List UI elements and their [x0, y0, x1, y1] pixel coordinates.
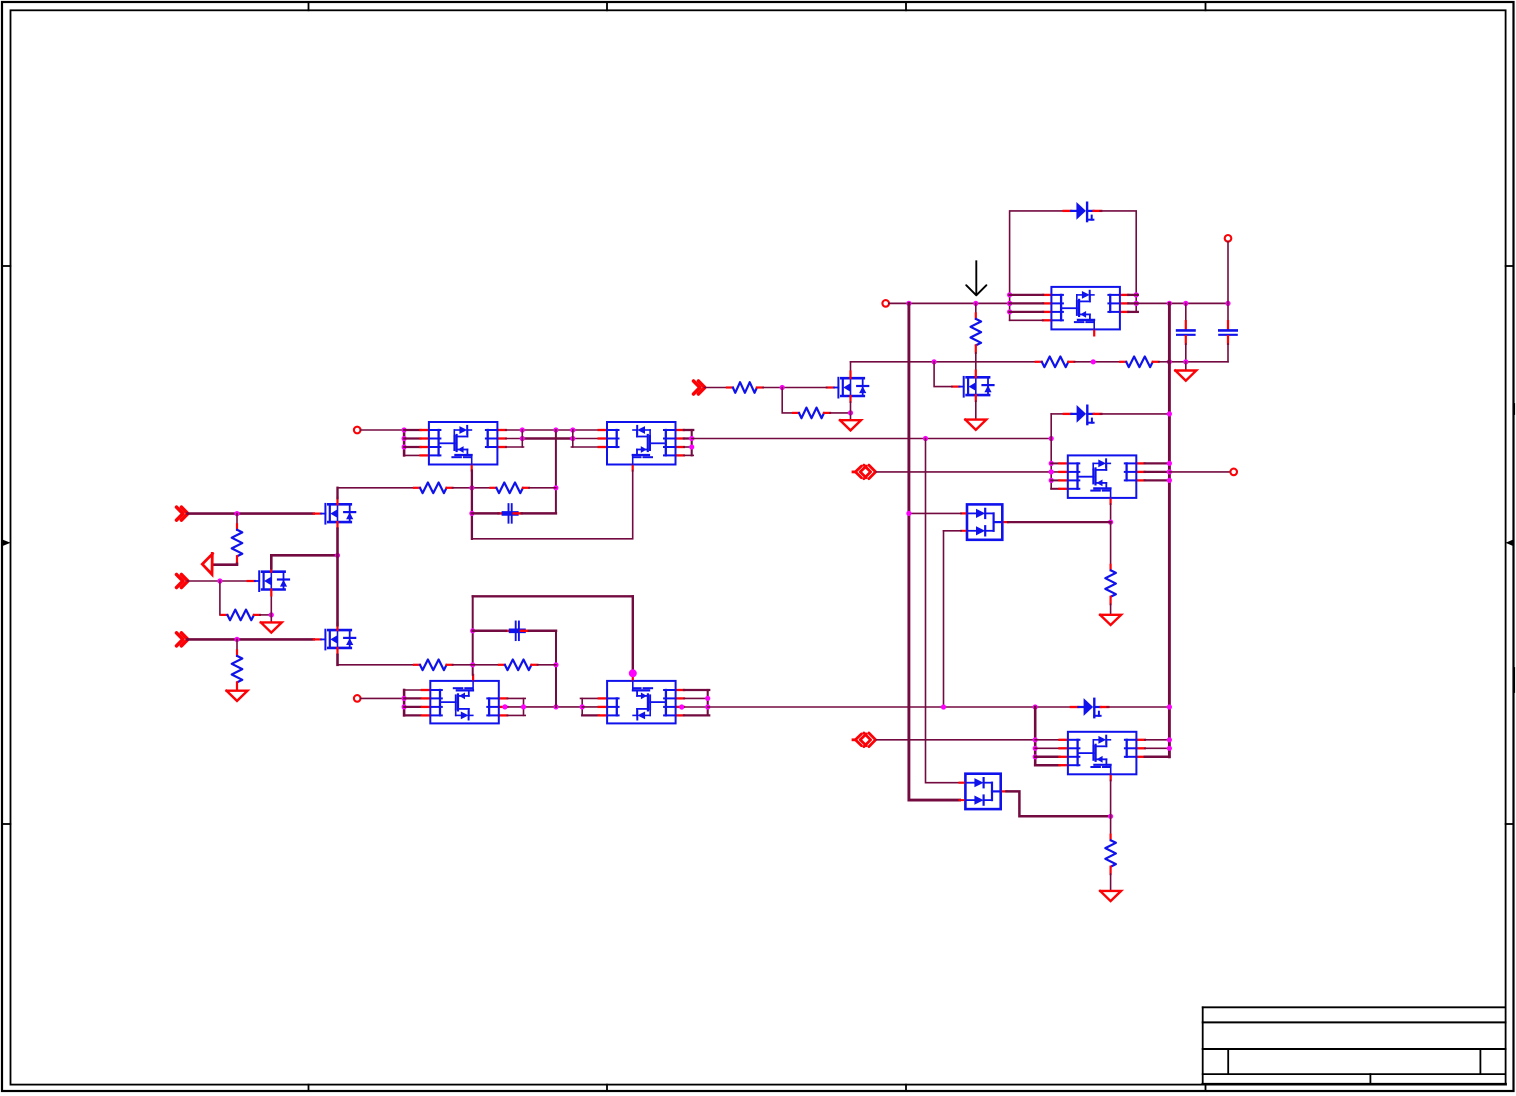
wire U7 right row2: [1145, 747, 1170, 749]
port P3 (input chevron): [177, 633, 188, 646]
wire D3 pin1 row: [909, 512, 961, 514]
wire U6 bottom pin: [1110, 504, 1112, 522]
wire Q1 drain up: [336, 488, 338, 498]
junction C row2 b: [521, 704, 526, 709]
junction U7 r1/trunk: [1167, 737, 1172, 742]
wire B bottom link: [472, 471, 633, 539]
wire loop left: [1010, 211, 1063, 295]
junction U6 r3/trunk: [1167, 478, 1172, 483]
resistor R2: [221, 610, 260, 621]
wire row361 left: [851, 361, 1036, 363]
wire U2 right row3: [684, 446, 693, 448]
junction A trunk: [335, 553, 340, 558]
port P1 (input chevron): [177, 507, 188, 520]
mosfet module U7: [1060, 732, 1145, 781]
wire U6 right row1: [1145, 462, 1170, 464]
mosfet module U3: [422, 675, 507, 724]
junction U4 tie r2: [705, 696, 710, 701]
wire U4 right row3 bus: [684, 706, 708, 708]
junction C row2 a: [502, 704, 507, 709]
wire U6 row2 to pad: [1169, 471, 1230, 473]
mosfet module U1: [421, 422, 506, 471]
junction U6 r1/trunk: [1167, 461, 1172, 466]
connector pad D2: [1225, 235, 1232, 242]
resistor R12: [793, 408, 830, 419]
wire trunk right: [1168, 303, 1171, 756]
wire R12 branch: [782, 388, 793, 413]
wire R2 to Q2 source node: [260, 614, 271, 616]
ground GND7: [1100, 891, 1121, 901]
resistor R14: [1105, 835, 1116, 874]
resistor R13: [1105, 565, 1116, 604]
resistor R10: [1120, 357, 1159, 368]
wire row2 to U2: [573, 438, 599, 440]
junction Qa source: [848, 410, 853, 415]
wire bus B to E: [692, 438, 1051, 440]
wire R1 to arrow port: [214, 562, 238, 566]
wire U3 left row1: [404, 689, 420, 691]
wire U3 tie c vertical: [523, 698, 525, 715]
wire U5 left row4: [1010, 319, 1043, 321]
wire C2 right: [529, 630, 556, 633]
wire R6 to R7: [453, 664, 499, 666]
wire D3 out row: [1008, 521, 1111, 523]
wire Qa drain up: [850, 362, 852, 372]
wire U4 right tie vertical: [707, 690, 709, 715]
diode D1: [1064, 202, 1102, 221]
transistor Q4a: [827, 372, 868, 402]
wire F tie vertical: [1034, 707, 1037, 765]
wire U6 left row4: [1051, 488, 1059, 490]
resistor R11: [727, 382, 763, 393]
frame center mark right: [1506, 539, 1514, 546]
junction bus/x925: [923, 436, 928, 441]
wire Q3 source down: [336, 655, 339, 665]
wire U1 row2 to tie: [506, 438, 523, 440]
wire U5 right row3: [1128, 311, 1138, 313]
connector pad D: [882, 300, 889, 307]
resistor R3: [232, 650, 243, 689]
wire P6 to U7: [877, 739, 1036, 741]
wire E res top: [1110, 522, 1112, 565]
wire row361 to Qb gate: [934, 362, 952, 387]
junction U4 tie r3: [705, 704, 710, 709]
frame edge dashes right: [1513, 404, 1515, 692]
wire R3 top stub: [236, 639, 238, 650]
junction row1 a: [520, 427, 525, 432]
wire U6 left row1: [1051, 462, 1059, 464]
resistor R9: [1036, 357, 1075, 368]
wire U7 bottom pin: [1110, 780, 1112, 816]
junction mid/resrow: [553, 485, 558, 490]
wire E diode row R: [1100, 413, 1169, 415]
wire pad D2 down: [1227, 242, 1229, 304]
junction bus/C3: [1183, 301, 1188, 306]
wire U2 right tie vertical: [691, 430, 693, 455]
wire U1 row3 to tie a: [506, 446, 524, 448]
wire mid vertical to cap row: [555, 430, 557, 513]
wire cap row: [1169, 361, 1228, 363]
wire U1 left row4: [404, 454, 420, 456]
junction caprow/trunk: [1167, 359, 1172, 364]
wire R4 to R5: [453, 487, 491, 489]
wire P3 to Q3 gate: [188, 638, 314, 641]
junction bus/R8: [973, 301, 978, 306]
junction C resrow b: [553, 662, 558, 667]
wire row2 thick: [522, 437, 573, 440]
wire U1 left row1: [404, 429, 420, 431]
wire R8 top: [975, 303, 977, 313]
wire R12 to Qa source: [830, 412, 851, 414]
wire U1-U2 row1: [506, 429, 599, 431]
connector pad E: [1230, 469, 1237, 476]
wire U1 bottom pin down: [471, 471, 473, 539]
mosfet module U6: [1059, 455, 1144, 504]
junction x943/bus: [941, 704, 946, 709]
wire E res bottom: [1110, 604, 1112, 615]
resistor R8: [971, 313, 982, 352]
wire U2 right row1: [684, 429, 693, 431]
wire pad C to U3 tie: [361, 697, 405, 699]
wire tie b to U2 row3: [571, 446, 598, 448]
wire U6 right row3: [1145, 479, 1170, 481]
junction D5 out/U7 pin: [1108, 814, 1113, 819]
wire E tie vertical: [1050, 414, 1052, 489]
wire Qa source down: [850, 402, 852, 420]
junction U5 rtie r2: [1134, 301, 1139, 306]
wire pad B to U1 tie: [361, 429, 405, 431]
wire R8 bottom to Q4: [975, 353, 977, 371]
junction D2/trunk: [1167, 411, 1172, 416]
wire P2 junction down to R2: [220, 581, 222, 615]
wire F res bottom: [1110, 874, 1112, 891]
junction U2 tie r2: [689, 436, 694, 441]
wire U5 left row1: [1010, 294, 1043, 296]
junction U5 tie r2: [1007, 301, 1012, 306]
ground GND6: [1100, 615, 1121, 625]
wire R10 to trunk: [1159, 361, 1170, 363]
wire x925 vertical: [926, 439, 960, 783]
junction E tie r2: [1049, 469, 1054, 474]
wire P4 to R11: [705, 387, 727, 389]
wire U5 left row3: [1010, 311, 1043, 313]
junction P3/R3: [234, 637, 239, 642]
junction U3 tie r2b: [402, 696, 407, 701]
wire C row2 to U4: [582, 706, 599, 708]
wire main bus: [889, 302, 1043, 304]
mosfet module U5: [1043, 287, 1128, 336]
wire bus right segment: [1136, 302, 1228, 304]
wire tie d row1: [581, 697, 599, 699]
junction R4/R5: [469, 485, 474, 490]
transistor Q3: [314, 623, 355, 653]
diode D4: [1071, 698, 1109, 717]
wire U7 left row3: [1035, 756, 1059, 759]
wire U2 right row2: [684, 437, 693, 439]
wire C1 right: [522, 512, 556, 515]
junction U7 r2/trunk: [1167, 746, 1172, 751]
wire trunk mid: [909, 303, 960, 800]
ground GND3: [1175, 371, 1196, 381]
port arrow (output flag): [202, 553, 212, 574]
wire tie b vertical: [572, 430, 574, 447]
junction C row2 mid: [553, 704, 558, 709]
junction F tie r3: [1033, 754, 1038, 759]
dual diode D5: [960, 774, 1007, 809]
junction F tie r2: [1033, 746, 1038, 751]
wire U6 left row3: [1051, 479, 1059, 481]
title block: [1203, 1007, 1506, 1084]
ground GND2: [227, 691, 248, 701]
junction Ftie/bus: [1033, 704, 1038, 709]
port P6 (bidir): [853, 733, 876, 747]
junction Q2 source: [269, 612, 274, 617]
wire P2 to Q2 gate: [188, 580, 248, 582]
junction F tie r1: [1033, 737, 1038, 742]
wire U1 left row2: [404, 437, 420, 439]
junction U2 tie r3: [689, 444, 694, 449]
wire x943 vertical: [943, 531, 945, 707]
junction D4/trunk: [1167, 704, 1172, 709]
ground GND1: [261, 622, 282, 632]
wire A trunk Q1-Q3: [336, 529, 339, 626]
wire U5 tie left vertical: [1009, 295, 1011, 320]
junction U5 rtie r1: [1134, 292, 1139, 297]
capacitor C1: [499, 504, 522, 523]
junction trunkM/D3: [906, 511, 911, 516]
ground GND4: [840, 420, 861, 430]
wire loop right: [1100, 211, 1136, 295]
port P4 (input chevron): [694, 381, 705, 394]
transistor Q4b: [952, 371, 993, 401]
junction P1/R1: [234, 511, 239, 516]
junction bus/trunkM: [906, 301, 911, 306]
port P5 (bidir): [853, 465, 876, 479]
diode D2: [1064, 405, 1102, 424]
junction U1 tie r1: [402, 427, 407, 432]
wire Q2 drain to trunk: [271, 555, 337, 568]
wire U3 left tie vertical: [403, 690, 406, 715]
junction U4 pin3: [679, 704, 684, 709]
wire F res top: [1110, 816, 1112, 834]
wire U3 top pin up: [472, 596, 474, 675]
junction C resrow a: [470, 662, 475, 667]
wire C res row: [338, 664, 415, 666]
wire P5 to U6: [877, 471, 1060, 473]
resistor R5: [490, 483, 529, 494]
junction U1 tie r2: [402, 436, 407, 441]
junction P2/R2: [217, 578, 222, 583]
wire U4 right row2: [684, 697, 708, 699]
resistor R6: [414, 660, 453, 671]
wire U3 left row2: [404, 697, 420, 699]
wire C2 left: [473, 630, 506, 633]
wire R9-R10: [1074, 361, 1120, 363]
junction bus/U5 tie: [1007, 301, 1012, 306]
wire U2 right row4: [684, 454, 693, 456]
junction caprow/gnd: [1183, 359, 1188, 364]
capacitor C3: [1177, 303, 1194, 361]
junction U1 pin/capline: [469, 511, 474, 516]
wire U3 right row3: [507, 714, 525, 716]
wire U5 right tie vertical: [1135, 295, 1137, 312]
wire U4 top pin up: [632, 596, 634, 675]
wire U5 right row2: [1128, 302, 1138, 304]
wire D4 to trunk: [1107, 706, 1169, 708]
wire R5 to mid: [529, 487, 556, 489]
junction row361 a: [932, 359, 937, 364]
capacitor C4: [1219, 303, 1236, 361]
wire D5 out: [1007, 791, 1111, 816]
junction bus/E tie: [1049, 436, 1054, 441]
transistor Q2: [248, 565, 289, 595]
wire res row B: [338, 487, 415, 489]
junction row2 b: [570, 436, 575, 441]
wire U4 tie d vertical: [581, 698, 583, 715]
capacitor C2: [506, 622, 529, 641]
wire U5 left row2: [1010, 302, 1043, 304]
mosfet module U2: [599, 422, 684, 471]
wire U5 right row1: [1128, 294, 1138, 296]
wire res row left: [336, 488, 338, 498]
wire U7 left row1: [1035, 739, 1059, 741]
wire E diode row L: [1051, 413, 1064, 415]
wire U7 right row1: [1145, 739, 1170, 741]
wire U3 right row1: [507, 697, 525, 699]
wire bus C to F: [708, 706, 1071, 708]
wire tie a vertical: [521, 430, 523, 447]
wire U3 row2 mid: [507, 706, 582, 708]
wire Qb source down: [975, 401, 977, 420]
dual diode D3: [961, 504, 1008, 539]
junction U5 tie r3: [1007, 309, 1012, 314]
junction U5 tie r1: [1007, 292, 1012, 297]
junction C row2 c: [580, 704, 585, 709]
wire U7 left row4: [1035, 764, 1059, 767]
wire U4 right row1: [684, 689, 709, 691]
junction E tie r3: [1049, 478, 1054, 483]
wire U6 right row2: [1145, 471, 1170, 473]
junction U1 tie r3: [402, 444, 407, 449]
junction bus/C4: [1225, 301, 1230, 306]
wire Q2 source down: [270, 595, 272, 623]
wire U7 left row2: [1035, 747, 1059, 749]
port P2 (input chevron): [177, 575, 188, 588]
wire D3 pin2 row: [944, 530, 962, 532]
frame center mark left: [2, 539, 11, 546]
junction bus/trunkR: [1167, 301, 1172, 306]
resistor R4: [414, 483, 453, 494]
wire R1 top stub: [236, 514, 238, 525]
wire U3 left row4: [404, 714, 420, 716]
junction U3 tie r3b: [402, 704, 407, 709]
resistor R7: [499, 660, 538, 671]
ground GND5: [965, 420, 986, 430]
resistor R1: [232, 524, 243, 563]
connector pad B: [354, 427, 361, 434]
wire gnd stem: [1185, 362, 1187, 371]
junction U6 r2/trunk: [1167, 469, 1172, 474]
junction row2 a: [520, 436, 525, 441]
junction U6 pin/D3: [1108, 520, 1113, 525]
wire C mid vertical: [555, 631, 557, 707]
junction E tie r1: [1049, 461, 1054, 466]
junction gate/R12: [780, 385, 785, 390]
mosfet module U4: [599, 675, 684, 724]
wire U1 left row3: [404, 446, 420, 448]
wire tie d row3: [582, 714, 599, 716]
wire R11 to Qa gate: [763, 387, 827, 389]
junction U4 top pin: [629, 669, 637, 677]
wire C1 left: [472, 512, 499, 515]
wire C top link: [473, 595, 633, 597]
transistor Q1: [314, 498, 355, 528]
junction row1 mid: [553, 427, 558, 432]
junction row1 b: [570, 427, 575, 432]
wire U3 left row3: [404, 706, 420, 708]
wire P1 to Q1 gate: [188, 512, 314, 515]
wire R7 to mid: [537, 664, 556, 666]
connector pad C: [354, 695, 361, 702]
annotation arrow: [966, 261, 986, 295]
wire U4 right row4: [684, 714, 709, 716]
wire U1 left tie vertical: [403, 430, 406, 455]
junction R9/R10: [1091, 359, 1096, 364]
wire U7 right row3: [1145, 756, 1170, 759]
junction C capline: [470, 628, 475, 633]
